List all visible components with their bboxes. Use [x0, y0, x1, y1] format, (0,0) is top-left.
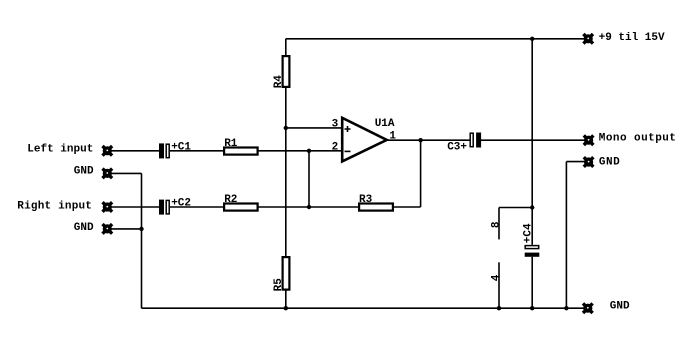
resistor R3 — [359, 204, 393, 211]
junction C4 / ground bus — [530, 306, 534, 310]
pad +9 til 15V — [583, 34, 593, 44]
junction bias rail / ground bus — [284, 306, 288, 310]
svg-text:+C4: +C4 — [522, 223, 534, 243]
capacitor C1 — [159, 142, 191, 159]
resistor R1 — [224, 148, 258, 155]
wire C2 through R2 R3 — [170, 206, 421, 208]
svg-text:R5: R5 — [273, 278, 285, 292]
pad Right input — [103, 202, 113, 212]
wire left GND pad to trunk — [107, 172, 141, 174]
wire R3 right to output node — [420, 140, 422, 207]
svg-text:3: 3 — [332, 118, 339, 130]
capacitor C3 — [447, 133, 481, 154]
svg-text:Mono output: Mono output — [599, 133, 677, 145]
pad GND lower-left — [103, 224, 113, 234]
wire C4 bottom to ground rail — [531, 257, 533, 308]
junction right GND / ground bus — [564, 306, 568, 310]
wire pin3 from bias node — [286, 127, 342, 129]
svg-text:C3+: C3+ — [447, 141, 467, 153]
wire C1 to R1 to pin2 — [170, 150, 342, 152]
wire right input to C2 — [107, 206, 159, 208]
capacitor C2 — [159, 198, 191, 215]
junction bias node pin3 — [284, 126, 288, 130]
pin 8 stub U1 power — [498, 208, 500, 240]
wire op-amp output to C3 — [387, 139, 470, 141]
svg-text:GND: GND — [599, 157, 620, 169]
resistor R5 — [283, 257, 290, 290]
svg-text:+C1: +C1 — [171, 142, 191, 154]
junction pin8 / V+ rail — [530, 205, 534, 209]
svg-text:U1A: U1A — [375, 118, 395, 130]
svg-text:R4: R4 — [273, 75, 285, 89]
wire V+ rail down to C4 — [531, 39, 533, 245]
junction summing node bottom — [307, 205, 311, 209]
pad GND upper-left — [103, 169, 113, 179]
pad Left input — [103, 146, 113, 156]
svg-text:R3: R3 — [359, 194, 373, 206]
svg-text:GND: GND — [74, 166, 94, 178]
wire summing link vertical — [308, 151, 310, 207]
wire GND trunk vertical — [141, 173, 143, 308]
wire lower-left GND pad to trunk — [107, 228, 141, 230]
wire ground bus bottom — [142, 307, 588, 309]
wire left input to C1 — [107, 150, 159, 152]
svg-text:1: 1 — [389, 131, 396, 143]
junction summing node top — [307, 149, 311, 153]
pin 4 stub U1 power — [498, 262, 500, 308]
capacitor C4 — [522, 223, 539, 257]
junction at supply rail / V+ drop — [530, 37, 534, 41]
op-amp U1A — [342, 118, 395, 162]
wire left bias rail vertical (through R4/R5) — [285, 39, 287, 308]
svg-text:8: 8 — [491, 221, 503, 228]
svg-text:2: 2 — [332, 142, 339, 154]
svg-text:Left input: Left input — [27, 144, 93, 156]
wire top supply rail horizontal — [286, 38, 588, 40]
wire right GND pad horizontal — [566, 161, 588, 163]
pad Mono output — [584, 135, 594, 145]
svg-text:4: 4 — [491, 274, 503, 281]
pad GND right upper — [584, 157, 594, 167]
junction pin4 / ground bus — [497, 306, 501, 310]
pad GND right lower — [583, 303, 593, 313]
svg-text:+C2: +C2 — [171, 198, 191, 210]
svg-text:R1: R1 — [224, 138, 238, 150]
resistor R4 — [283, 56, 290, 87]
svg-text:Right input: Right input — [17, 200, 92, 212]
svg-text:GND: GND — [610, 300, 630, 312]
junction output node — [418, 138, 422, 142]
wire C3 to mono output pad — [481, 139, 589, 141]
wire pin8 horizontal — [499, 207, 532, 209]
wire right GND vertical — [565, 162, 567, 309]
svg-text:+9 til 15V: +9 til 15V — [599, 32, 665, 44]
svg-text:R2: R2 — [224, 194, 237, 206]
svg-text:GND: GND — [74, 222, 94, 234]
resistor R2 — [224, 204, 258, 211]
junction GND trunk — [139, 227, 143, 231]
